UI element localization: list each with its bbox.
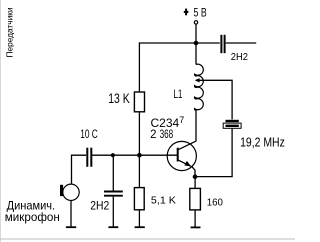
- resistor 5,1 K: [134, 188, 144, 210]
- wire: antenna output: [226, 42, 256, 44]
- resistor 160: [190, 188, 201, 210]
- capacitor 2H2 (mic shunt): [104, 191, 123, 193]
- wire: mic to ground: [70, 201, 72, 228]
- ground (shunt cap): [108, 226, 118, 228]
- supply terminal: [194, 21, 197, 24]
- node: emitter junction: [193, 174, 198, 179]
- ground (mic): [66, 226, 76, 228]
- transistor VT1: [167, 141, 196, 170]
- svg-text:5 В: 5 В: [194, 7, 207, 19]
- page left border: [0, 0, 2, 242]
- wire: emitter down to node: [192, 167, 195, 177]
- svg-text:микрофон: микрофон: [5, 212, 60, 224]
- svg-text:L1: L1: [173, 87, 182, 101]
- wire: collector up to coil: [195, 110, 197, 141]
- capacitor C 2H2 (antenna coupling): [220, 35, 222, 53]
- svg-text:Динамич.: Динамич.: [7, 199, 56, 213]
- wire: crystal down and left to emitter node: [195, 129, 232, 177]
- wire: base line down to shunt cap: [112, 155, 114, 190]
- collector stroke: [178, 141, 196, 150]
- wire: supply rail: [139, 42, 219, 44]
- microphone BM1: [63, 184, 79, 200]
- capacitor 10 C (mic coupling): [86, 148, 88, 167]
- node: shunt cap junction: [111, 153, 115, 157]
- node: base junction: [137, 153, 142, 158]
- wire: R160 to ground: [194, 210, 196, 227]
- wire: R5,1K to ground: [138, 210, 140, 227]
- wire: base line from coupling cap to transistor: [92, 154, 178, 156]
- emitter stroke: [178, 160, 193, 167]
- coil tap arrow: [195, 78, 200, 82]
- svg-text:13 K: 13 K: [108, 90, 130, 106]
- svg-text:10 C: 10 C: [80, 127, 98, 141]
- svg-text:2: 2: [150, 129, 156, 141]
- svg-text:2Н2: 2Н2: [231, 51, 248, 63]
- wire: terminal down to coil top: [195, 24, 197, 64]
- ground (R5,1K): [135, 226, 145, 228]
- svg-text:Передатчики: Передатчики: [5, 7, 15, 57]
- wire: rail corner down to R 13K: [138, 42, 140, 92]
- svg-text:5,1 K: 5,1 K: [151, 195, 176, 207]
- node: supply rail junction: [194, 41, 199, 46]
- page bottom rule: [0, 238, 295, 240]
- wire: mic to coupling cap: [72, 155, 87, 184]
- resistor 13 K: [134, 92, 144, 112]
- svg-text:19,2 MHz: 19,2 MHz: [240, 134, 285, 149]
- wire: shunt cap to ground: [112, 197, 114, 227]
- wire: R13K bottom through base node to R5,1K top: [138, 112, 140, 188]
- wire: emitter node down to R160: [194, 177, 196, 189]
- supply label + 5 V: [184, 11, 189, 13]
- inductor L1: [194, 64, 203, 110]
- svg-text:160: 160: [207, 197, 223, 209]
- wire: tap to crystal: [198, 80, 232, 119]
- emitter arrow: [184, 161, 191, 167]
- svg-text:368: 368: [160, 129, 174, 141]
- svg-text:C2347: C2347: [151, 115, 185, 130]
- ground (R160): [191, 226, 201, 228]
- svg-text:2Н2: 2Н2: [90, 198, 109, 212]
- crystal ZQ1 19,2 MHz: [226, 120, 239, 122]
